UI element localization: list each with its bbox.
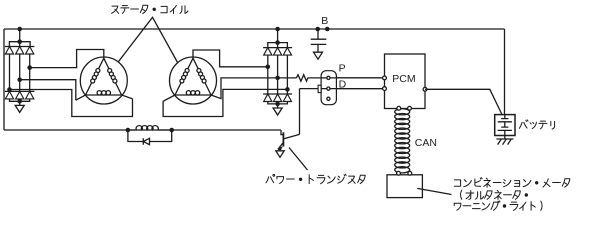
- label stator coil pointer lines: [118, 17, 177, 62]
- junction dot left rectifier rail: [17, 27, 22, 32]
- diode D4: [5, 91, 13, 99]
- PCM pin CAN1: [397, 106, 401, 110]
- connector pin D: [327, 87, 330, 90]
- wire right rectifier cathode bar: [263, 47, 292, 49]
- wire bottom field rail: [4, 129, 281, 131]
- svg-text:D: D: [339, 79, 347, 91]
- diode D8: [274, 48, 282, 56]
- junction dot phase W2: [285, 87, 290, 92]
- wire coil2 right to phase V2: [211, 78, 278, 99]
- svg-text:PCM: PCM: [392, 73, 415, 85]
- stator coil 1 circle: [80, 57, 127, 104]
- junction dot left rectifier ground: [17, 99, 22, 104]
- wire flyback diode branch: [128, 130, 172, 142]
- CAN bus twisted pair: [395, 109, 410, 173]
- label combination meter line3: [454, 201, 542, 211]
- wire right rectifier bottom bracket: [268, 102, 288, 104]
- wire left rectifier bottom bracket: [10, 99, 30, 101]
- diode D13 flyback: [143, 138, 149, 145]
- junction dot right rectifier rail: [275, 27, 280, 32]
- junction dot B right: [325, 27, 330, 32]
- ground right rectifier: [273, 108, 282, 115]
- diode D12: [283, 94, 291, 102]
- connector pin 3: [327, 97, 330, 100]
- wire left border: [3, 29, 5, 130]
- junction dot left rectifier bracket: [17, 39, 22, 44]
- junction dot right rectifier ground: [275, 102, 280, 107]
- svg-text:CAN: CAN: [415, 137, 437, 149]
- wire left rectifier top bracket: [9, 42, 30, 47]
- ground power transistor: [276, 151, 284, 158]
- wire collector to D line: [299, 89, 301, 135]
- wire left rectifier column 3: [29, 54, 31, 91]
- inductor L1 rotor field coil: [136, 126, 158, 130]
- wire P line through connector: [321, 77, 384, 79]
- wire D line connector to PCM: [300, 88, 385, 90]
- chassis ground battery: [496, 139, 513, 145]
- meter pin CAN1: [397, 171, 401, 175]
- wire field coil leads: [128, 129, 172, 131]
- meter pin CAN2: [408, 171, 412, 175]
- junction dot phase V2: [275, 76, 280, 81]
- connector pin P: [327, 76, 330, 79]
- PCM pin B+: [423, 87, 427, 91]
- wire left rectifier anode bar: [5, 90, 35, 92]
- connector housing: [321, 71, 336, 105]
- junction dot field coil left: [126, 128, 131, 133]
- label power transistor text: [266, 174, 365, 183]
- connector key tab: [318, 85, 321, 92]
- ground under capacitor: [314, 52, 323, 59]
- label combination meter line1: [454, 178, 570, 188]
- diode D6: [26, 91, 34, 99]
- wire left rectifier ground stem: [19, 99, 21, 106]
- diode D5: [16, 91, 24, 99]
- label stator coil text: [112, 5, 188, 13]
- wire right rectifier ground stem: [277, 102, 279, 109]
- transistor Q1 emitter: [279, 142, 284, 148]
- wire B to capacitor: [317, 29, 319, 39]
- PCM box U1: [385, 54, 426, 109]
- label combination meter pointer: [417, 188, 451, 194]
- PCM pin D: [383, 87, 387, 91]
- diode D1: [5, 47, 13, 55]
- stator coil 2 circle: [170, 57, 217, 104]
- transistor Q1 base bar: [282, 132, 284, 146]
- junction dot phase W1: [7, 87, 12, 92]
- wire right rectifier anode bar: [263, 93, 292, 95]
- wire coil2 apex to phase U2: [193, 50, 268, 67]
- wire top B+ rail: [4, 28, 505, 30]
- diode D3: [26, 47, 34, 55]
- label combination meter line2: [461, 190, 528, 199]
- wire right rectifier column 1: [267, 55, 269, 94]
- wire phase V1 to coil1 left: [20, 80, 76, 101]
- combination meter box: [387, 175, 422, 198]
- resistor R1: [296, 75, 308, 82]
- diode D2: [16, 47, 24, 55]
- wire right rectifier feed: [277, 29, 279, 48]
- PCM pin CAN2: [408, 106, 412, 110]
- diode D9: [283, 48, 291, 56]
- wire right rectifier column 3: [286, 55, 288, 94]
- svg-text:B: B: [321, 15, 328, 27]
- stator coil 1 delta winding: [76, 58, 133, 100]
- wire left rectifier column 2: [19, 54, 21, 91]
- wire left rectifier cathode bar: [5, 46, 35, 48]
- wire left rectifier feed: [19, 29, 21, 47]
- wire capacitor to ground: [317, 44, 319, 52]
- junction dot phase V1: [17, 77, 22, 82]
- junction dot right rectifier bracket: [275, 40, 280, 45]
- wire right rail drop to battery: [504, 29, 506, 115]
- battery cells: [498, 115, 512, 139]
- wire phase W1 under coil1: [10, 90, 133, 117]
- transistor Q1 collector: [283, 134, 299, 139]
- wire right rectifier top bracket: [268, 43, 288, 48]
- diode D11: [274, 94, 282, 102]
- junction dot B left: [315, 27, 320, 32]
- battery box: [495, 115, 515, 136]
- wire PCM to battery: [425, 89, 502, 114]
- capacitor C1 noise suppressor: [311, 39, 327, 44]
- svg-text:P: P: [339, 62, 346, 74]
- label battery text: [519, 120, 554, 129]
- diode D7: [264, 48, 272, 56]
- wire phase V2 to resistor: [278, 77, 297, 79]
- label power transistor pointer: [289, 148, 308, 171]
- wire D line through connector: [321, 88, 384, 90]
- junction dot phase U1: [27, 65, 32, 70]
- stator coil 2 delta winding: [175, 58, 211, 95]
- wire left rectifier column 1: [9, 54, 11, 91]
- junction dot phase U2: [266, 65, 271, 70]
- wire phase U1 to coil1 apex: [30, 50, 104, 68]
- wire resistor to PCM pin P: [308, 77, 385, 79]
- wire field rail to transistor base: [281, 130, 283, 135]
- PCM pin P: [383, 76, 387, 80]
- junction dot field coil right: [169, 128, 174, 133]
- wire right rectifier column 2: [277, 55, 279, 94]
- transistor Q1 emitter arrowhead: [278, 147, 281, 150]
- wire coil2 left under coil to phase W2: [163, 89, 287, 116]
- ground left rectifier: [15, 105, 24, 112]
- diode D10: [264, 94, 272, 102]
